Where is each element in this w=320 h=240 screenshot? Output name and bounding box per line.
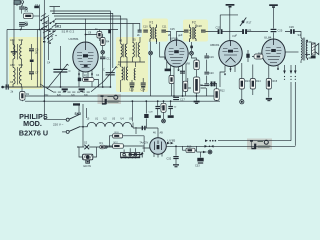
- wire: bus drop x132: [131, 101, 133, 121]
- resistor R14: [250, 79, 255, 90]
- svg-text:7A+C5V: 7A+C5V: [140, 142, 149, 145]
- text PHILIPS: [19, 112, 48, 138]
- aerial terminal circle: [21, 1, 24, 7]
- resistor R2 under UCH81: [83, 78, 95, 82]
- connector bar above SK2: [73, 103, 80, 105]
- F2 cap left: [184, 30, 189, 33]
- resistor R12: [214, 89, 219, 101]
- wire: IF out to UBC81: [206, 31, 269, 33]
- svg-text:A50: A50: [10, 63, 15, 67]
- svg-text:UF89: UF89: [170, 36, 178, 40]
- tube UY85 rectifier: [150, 138, 167, 155]
- wire: F2 lower lead to detector: [192, 42, 197, 60]
- svg-text:F1: F1: [150, 21, 154, 25]
- wire: heater drop 291: [290, 65, 292, 141]
- wire: long left vertical: [43, 0, 45, 120]
- trimmer R17: [240, 18, 246, 27]
- wire: UL84 anode to transformer: [285, 51, 299, 53]
- F1 cap left: [143, 30, 148, 33]
- resistor R8: [194, 60, 199, 70]
- cap C26 series: [290, 29, 294, 34]
- svg-text:C33: C33: [195, 165, 200, 168]
- wire: SK1 vertical: [48, 17, 50, 60]
- line1 arrow and dots: [205, 139, 216, 142]
- wire: osc cap links: [132, 78, 143, 92]
- wire: UL84 grid cap lead: [273, 7, 275, 39]
- wire: smoothing rail links: [158, 101, 171, 119]
- wire: top bus 3: [54, 16, 121, 44]
- highlight region: oscillator coils: [116, 37, 148, 92]
- cap C20h: [204, 72, 209, 75]
- IF transformer F2 coils: [190, 25, 197, 43]
- capacitor C6: [29, 48, 34, 51]
- resistor R16: [254, 54, 263, 59]
- wire: top bus 1 to osc tuning cap: [50, 11, 110, 73]
- svg-text:S30: S30: [19, 38, 24, 42]
- wire: grid T-bar: [50, 7, 61, 14]
- chassis hatch bar: [128, 154, 141, 156]
- wire: heater drop 295: [294, 65, 296, 146]
- wire: top bus 4: [55, 19, 127, 44]
- wire: UL84 pins: [266, 58, 279, 98]
- cap under UF89 grid: [165, 69, 171, 72]
- wire: dial cord dashed: [53, 91, 91, 93]
- osc cap 1: [130, 83, 135, 88]
- wire: bottom line 1: [218, 140, 291, 142]
- pin x marks UF89: [178, 70, 180, 72]
- svg-text:A5: A5: [119, 39, 123, 43]
- cap C22: [204, 83, 209, 86]
- svg-text:µµF: µµF: [178, 34, 183, 37]
- svg-text:R13: R13: [245, 80, 250, 83]
- wire: transformer to speaker: [301, 42, 312, 63]
- cathode resistor R5: [169, 76, 174, 84]
- rectifier output arrows: [167, 142, 174, 145]
- svg-text:E10 6V: E10 6V: [84, 166, 92, 168]
- resistor R24b: [113, 144, 124, 148]
- svg-text:C22: C22: [209, 84, 214, 87]
- wire: dial cord diagonal left: [40, 84, 53, 92]
- resistor R13: [239, 79, 244, 90]
- svg-text:0.1: 0.1: [25, 10, 29, 13]
- svg-text:R8: R8: [187, 62, 191, 66]
- resistor R19: [186, 148, 195, 152]
- wire: left edge vertical to ground: [13, 30, 15, 52]
- svg-text:S4: S4: [298, 33, 302, 37]
- wire: heater chain start: [80, 126, 86, 128]
- ground under volume: [194, 101, 200, 104]
- wire: SK2 to fuse: [82, 115, 84, 147]
- svg-text:C7: C7: [35, 71, 39, 75]
- wire: C8 horizontal: [2, 87, 23, 92]
- resistor R1: [20, 92, 25, 101]
- svg-text:R12: R12: [220, 90, 225, 93]
- capacitor C6b blob: [30, 60, 34, 63]
- wire: bus drop x146: [145, 101, 147, 128]
- voltage selector strip: [121, 152, 140, 158]
- capacitor C7: [29, 71, 34, 74]
- oscillator coil pair A: [121, 44, 127, 58]
- heater chain coil: [86, 122, 134, 126]
- wire: C32 drop: [175, 146, 177, 164]
- highlight region: aerial coils: [9, 37, 43, 89]
- svg-text:A6: A6: [118, 63, 122, 67]
- screen cap C17: [173, 97, 179, 100]
- wire: osc coil B feed: [132, 24, 135, 43]
- capacitor C11: [100, 57, 105, 60]
- test point under F1: [149, 51, 153, 55]
- variable capacitor C4a: [53, 69, 67, 73]
- svg-text:C32: C32: [167, 157, 172, 160]
- svg-text:C19: C19: [209, 56, 214, 59]
- svg-text:A30: A30: [10, 38, 15, 42]
- wire: SK2 mains lead: [44, 119, 66, 121]
- wire: UF89 pins: [171, 64, 187, 97]
- pilot lamp: [83, 154, 93, 163]
- ground gang2: [79, 88, 85, 91]
- switch SK2 contact 1: [66, 115, 79, 122]
- volume potentiometer: [193, 77, 202, 93]
- wire: top bus 5 to F1: [55, 24, 140, 31]
- strip arrow: [141, 152, 143, 157]
- test point power: [162, 119, 166, 123]
- svg-text:NTC: NTC: [114, 142, 119, 144]
- tube UBC81: [219, 41, 242, 67]
- svg-text:C: C: [69, 69, 71, 73]
- capacitor C1: [19, 7, 24, 14]
- wire: aerial bus y87: [7, 86, 110, 88]
- cathode cap UL84: [246, 54, 249, 58]
- wire: C33 drop: [200, 152, 202, 158]
- osc cap 2: [141, 83, 146, 88]
- coil box 101: [24, 13, 40, 18]
- wire: antenna lead vertical: [39, 5, 41, 30]
- chassis bar bottom: [125, 154, 142, 158]
- svg-text:C17: C17: [180, 97, 185, 101]
- wire: UF89 cathode components: [165, 57, 172, 96]
- svg-text:R17: R17: [247, 21, 252, 25]
- IF transformer F1 coils: [150, 25, 157, 43]
- bus label smudges: [44, 93, 177, 113]
- jack circle: [240, 100, 244, 104]
- oscillator coil pair C: [122, 67, 136, 81]
- wire: rectifier pins: [143, 148, 163, 158]
- caps C28 pair: [142, 126, 146, 130]
- resistor R3: [97, 30, 102, 42]
- svg-text:µµF: µµF: [233, 33, 238, 37]
- svg-text:R19: R19: [187, 146, 192, 149]
- tube UCH81: [73, 42, 98, 72]
- variable capacitor C4b: [106, 72, 115, 75]
- wire: UCH81 anode to R4 column: [86, 35, 103, 38]
- capacitor C2: [34, 6, 39, 9]
- heater continuation arrows: [283, 71, 296, 80]
- wire: rectifier output: [166, 145, 210, 147]
- svg-text:SK1: SK1: [55, 24, 62, 28]
- svg-text:S50: S50: [19, 63, 24, 67]
- wire: top bus 2: [52, 14, 113, 69]
- speaker: [311, 43, 319, 58]
- heater labels: [87, 118, 133, 121]
- wire: HT bus y101.2: [25, 100, 220, 102]
- resistor R15: [266, 79, 271, 90]
- wire: detector caps column: [201, 53, 217, 101]
- wire: R24 left links: [107, 136, 113, 147]
- wire: osc mid horizontals: [118, 62, 145, 92]
- svg-text:C20: C20: [216, 25, 221, 29]
- svg-text:R16: R16: [258, 53, 263, 56]
- coupling cap dark: [211, 81, 216, 86]
- svg-text:C11: C11: [106, 57, 111, 61]
- svg-text:C: C: [103, 69, 105, 72]
- svg-text:S1 R G 2: S1 R G 2: [62, 30, 75, 34]
- wire: rectifier top wire: [133, 123, 158, 138]
- wire: UBC81 grid wire: [220, 15, 238, 30]
- capacitor C8: [1, 84, 9, 89]
- pin x marks UCH81: [78, 74, 93, 76]
- svg-text:R1: R1: [100, 141, 104, 145]
- wire: UCH81 grid top: [85, 19, 87, 43]
- wire: UBC81 pins: [220, 63, 253, 100]
- F2 cap right: [201, 30, 206, 33]
- oscillator coil pair B: [133, 42, 141, 57]
- svg-text:S5: S5: [133, 38, 137, 42]
- svg-text:220 V ~: 220 V ~: [53, 122, 64, 126]
- svg-text:C25: C25: [278, 29, 283, 33]
- F1 outside cap: [138, 30, 142, 33]
- svg-text:UL84: UL84: [264, 35, 272, 39]
- svg-text:C13: C13: [129, 89, 134, 92]
- wire: detector column: [185, 70, 196, 101]
- component: mains aerial box: [14, 0, 20, 6]
- pin x marks UBC81: [224, 69, 231, 76]
- cap C19: [204, 56, 209, 59]
- wire: pilot lamp loop: [77, 147, 97, 157]
- switch SK2 contact 2: [62, 127, 80, 134]
- wire: R16 lead: [248, 50, 266, 62]
- wire: tuning arrow gang 2: [104, 67, 118, 82]
- top cap UBC81: [226, 4, 235, 8]
- svg-text:C11: C11: [162, 26, 167, 29]
- resistor R24a: [113, 134, 123, 138]
- test point under F2: [190, 51, 194, 55]
- smoothing cap C31: [168, 106, 174, 118]
- trimmer circle C3a: [25, 23, 28, 26]
- line3 arrow and earth circle: [203, 150, 212, 154]
- scattered small labels: [10, 4, 278, 96]
- wire: SK2 uprights: [79, 104, 87, 118]
- wire: mains run y147: [77, 146, 113, 148]
- ground left edge: [11, 51, 17, 54]
- svg-text:R14: R14: [256, 80, 261, 83]
- wire: UF89 anode to F2: [177, 32, 185, 41]
- svg-text:C20: C20: [209, 72, 214, 75]
- top cap UL84: [269, 4, 278, 8]
- switch SK1 contact cluster: [41, 14, 57, 43]
- wire: anode top to C26: [285, 32, 301, 39]
- ground gang1: [62, 88, 68, 91]
- cap right of UF89: [180, 71, 185, 74]
- wire: R4 column segments: [102, 46, 104, 88]
- output transformer S4: [301, 38, 308, 61]
- junction blob under F2: [190, 46, 193, 49]
- wire: var cap 1 leads: [60, 46, 62, 87]
- capacitor C29 on dropper: [144, 114, 148, 118]
- wire: bottom line 3: [197, 151, 207, 153]
- svg-text:S2: S2: [84, 141, 88, 145]
- wire: F1 to UF89 coupling: [166, 32, 171, 42]
- smoothing resistor R20: [161, 103, 166, 112]
- svg-text:C10: C10: [143, 26, 148, 29]
- wire: AVC bus y96: [25, 95, 217, 97]
- svg-text:C18: C18: [197, 25, 202, 28]
- line2 arrow and dots: [205, 145, 214, 148]
- wire: bottom line 2: [210, 145, 295, 147]
- wire: R1 to bus: [21, 100, 23, 101]
- wire: yellow1 cap links: [31, 44, 33, 80]
- svg-text:F2: F2: [192, 21, 196, 25]
- wire: dial cord diagonal right: [91, 82, 104, 92]
- wire: yellow1 right verticals: [37, 30, 41, 88]
- highlight region: IF transformer F2: [183, 20, 208, 42]
- svg-text:UY85: UY85: [168, 139, 176, 143]
- cap C25: [271, 29, 277, 32]
- svg-text:R4: R4: [106, 40, 110, 44]
- wire: UBC81 top cap lead: [229, 7, 231, 41]
- pin x marks UL84: [277, 68, 279, 70]
- tube UF89: [165, 40, 188, 67]
- trimmer circle C1a: [25, 7, 28, 10]
- capacitor C32: [173, 156, 179, 167]
- wire: R19 loop: [183, 146, 197, 152]
- wire: heater end drop: [135, 127, 137, 134]
- svg-text:UBC81: UBC81: [210, 43, 220, 47]
- F1 cap right: [161, 30, 166, 33]
- capacitor C3 pair: [19, 22, 25, 29]
- wire: var cap 2 leads: [109, 75, 111, 87]
- svg-text:B2X76 U: B2X76 U: [19, 129, 48, 138]
- cap C20 series: [218, 29, 223, 34]
- highlight region: IF transformer F1: [142, 19, 168, 42]
- cap C21 series: [242, 29, 247, 34]
- svg-text:R15: R15: [273, 80, 278, 83]
- smoothing cap C30: [155, 106, 161, 118]
- wire: volume to AF: [201, 88, 207, 96]
- wire: osc coil top links: [121, 37, 140, 67]
- svg-text:C14: C14: [141, 89, 146, 92]
- wire: horizontal bus y29.5: [7, 29, 118, 31]
- wire: tuning arrow gang 1: [47, 64, 68, 89]
- watermark logo 2: [247, 139, 272, 150]
- svg-text:C26: C26: [289, 25, 294, 29]
- capacitor C33: [197, 158, 203, 164]
- svg-text:AB: AB: [160, 132, 164, 135]
- resistor R23: [100, 145, 105, 149]
- wire: yellow1 coil links: [13, 41, 22, 88]
- tube UL84: [262, 39, 285, 66]
- svg-text:MOD.: MOD.: [23, 119, 42, 128]
- resistor R4: [100, 38, 105, 46]
- svg-text:UCH81: UCH81: [69, 37, 79, 41]
- wire: left column to C8: [6, 30, 8, 88]
- capacitor on osc grid line: [108, 30, 111, 34]
- ground under R15: [266, 98, 272, 101]
- watermark logo 1: [98, 94, 122, 105]
- resistor R7: [183, 81, 188, 91]
- test point circle mixer: [101, 50, 105, 54]
- mains terminal circle: [105, 146, 107, 148]
- wire: strip uprights: [124, 148, 135, 152]
- wire: F1 lower leads: [150, 39, 165, 97]
- capacitor blob left of R2: [78, 78, 81, 82]
- svg-text:C21: C21: [247, 28, 252, 32]
- wire: C1 branch vertical: [13, 2, 15, 30]
- aerial transformer L2 lower: [13, 67, 22, 85]
- aerial transformer L1 upper: [13, 44, 22, 60]
- wire: R24 right links: [123, 136, 145, 152]
- wire: UCH81 pins: [79, 71, 99, 88]
- svg-text:C15: C15: [170, 28, 175, 31]
- wire: heater drop 284: [284, 65, 286, 71]
- fuse X: [84, 145, 89, 149]
